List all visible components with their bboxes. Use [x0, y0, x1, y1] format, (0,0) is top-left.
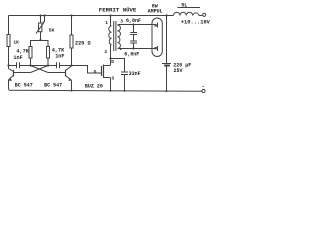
- svg-text:1nF: 1nF: [55, 54, 64, 60]
- svg-text:6,8nF: 6,8nF: [124, 52, 139, 58]
- svg-text:4,7K: 4,7K: [16, 48, 29, 54]
- svg-text:BC 547: BC 547: [44, 83, 62, 89]
- svg-text:1K: 1K: [13, 39, 19, 45]
- svg-text:220 Ω: 220 Ω: [75, 41, 91, 47]
- svg-text:1: 1: [105, 20, 108, 26]
- svg-text:5K: 5K: [49, 27, 55, 33]
- svg-text:33nF: 33nF: [129, 71, 141, 77]
- svg-text:S: S: [112, 75, 115, 81]
- svg-text:5L: 5L: [181, 2, 187, 8]
- svg-text:G: G: [94, 69, 97, 75]
- svg-text:+10...16V: +10...16V: [181, 20, 211, 26]
- svg-text:BC 547: BC 547: [15, 83, 33, 89]
- svg-text:4,7K: 4,7K: [52, 48, 65, 54]
- svg-text:FERRIT NÜVE: FERRIT NÜVE: [99, 7, 137, 14]
- svg-text:1nF: 1nF: [13, 55, 22, 61]
- svg-text:D: D: [111, 59, 114, 65]
- svg-text:-: -: [202, 83, 205, 89]
- svg-text:2: 2: [104, 49, 107, 55]
- svg-text:6,8nF: 6,8nF: [126, 18, 141, 24]
- svg-text:AMPUL: AMPUL: [148, 9, 163, 15]
- svg-text:3: 3: [120, 19, 123, 25]
- svg-text:25V: 25V: [174, 68, 183, 74]
- svg-text:BUZ 20: BUZ 20: [85, 84, 103, 90]
